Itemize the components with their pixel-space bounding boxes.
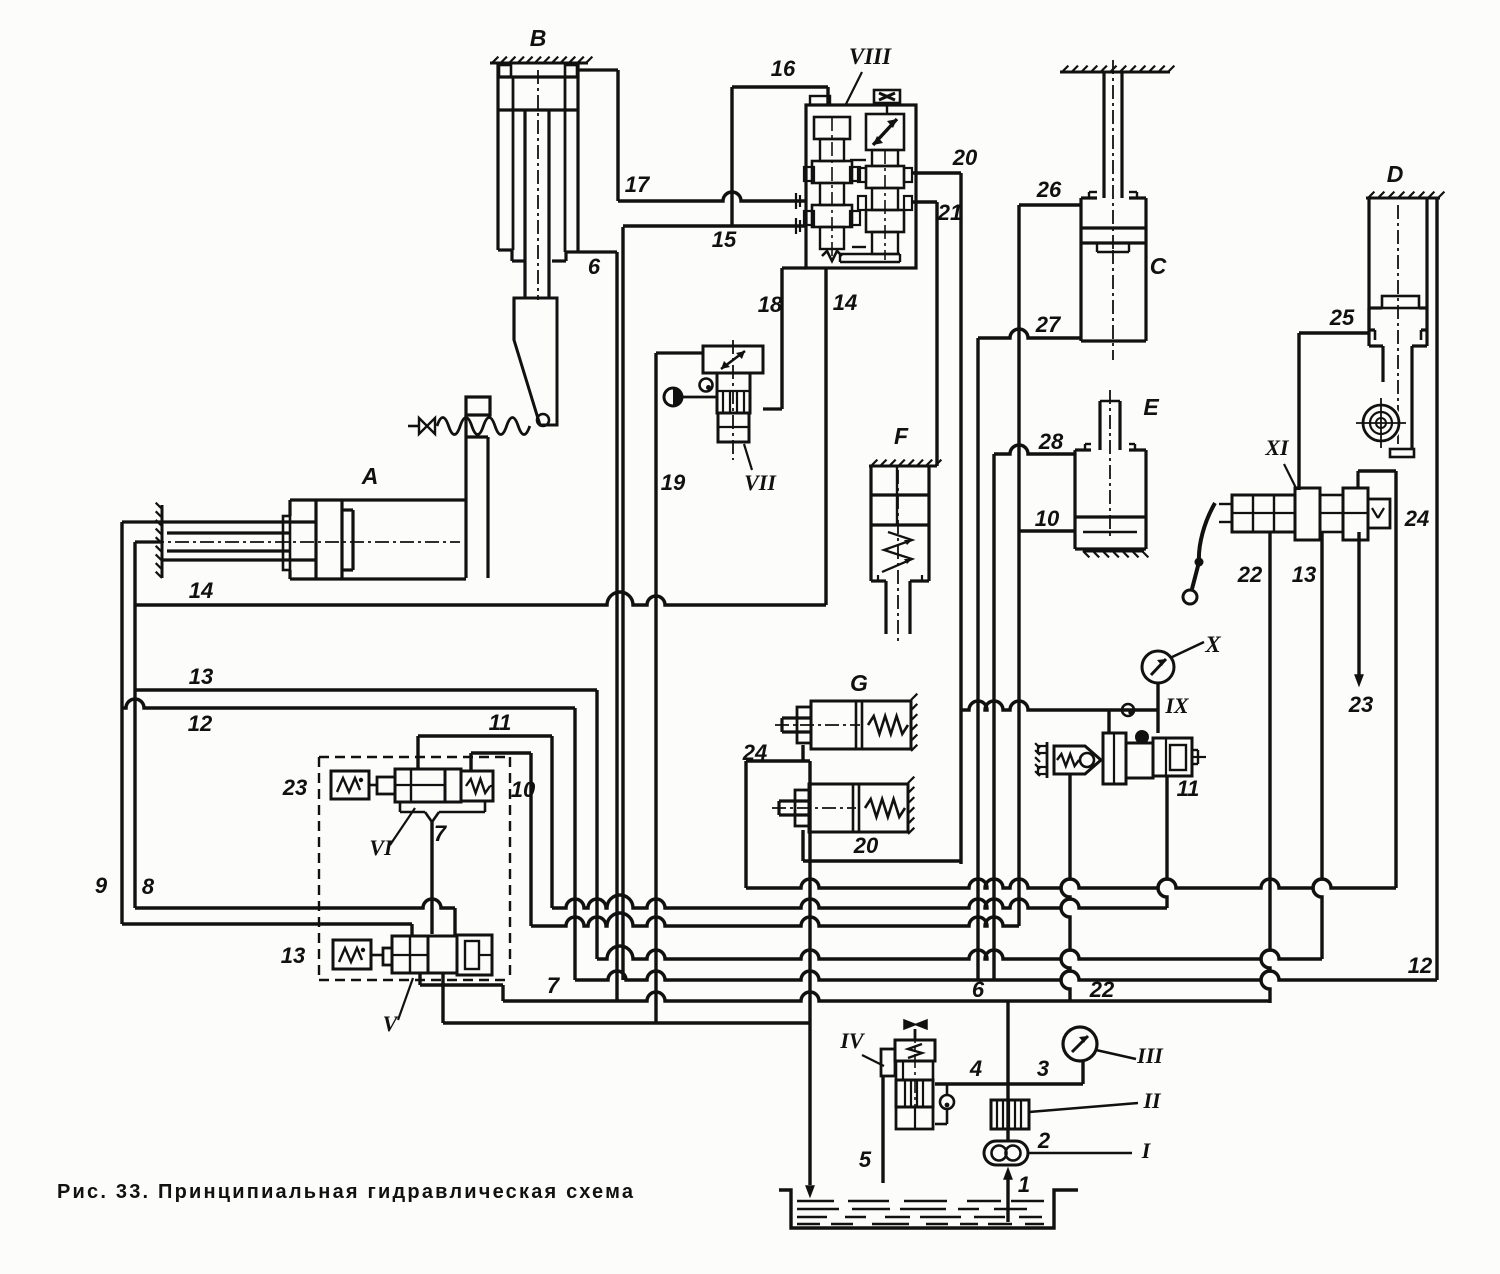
svg-text:8: 8 [142,874,155,899]
filter II [991,1100,1029,1129]
drain line 7 [443,1021,810,1024]
wire 24 left [801,745,804,761]
valve IV [904,1020,927,1029]
IX left stub [1101,759,1103,762]
bus line 13 [597,946,1322,959]
cylinder B [490,62,588,65]
svg-text:II: II [1142,1088,1162,1113]
wire 23 [1357,532,1360,676]
spring stop assembly [437,418,530,435]
wire 7 mid [430,822,433,934]
cylinder G lower [809,784,908,832]
svg-text:C: C [1150,253,1167,279]
wire 25 [1299,331,1369,334]
svg-text:14: 14 [833,290,857,315]
svg-text:6: 6 [972,977,985,1002]
valve IX [1103,733,1126,784]
cylinder C [1060,71,1170,74]
svg-text:E: E [1143,394,1159,420]
wire 8 [135,540,162,543]
wire 26 [1019,203,1081,206]
wire 10 [1019,529,1075,532]
svg-text:IX: IX [1164,693,1190,718]
svg-text:10: 10 [511,777,536,802]
svg-text:3: 3 [1037,1056,1049,1081]
gauge III [1063,1027,1097,1061]
line 13 [135,688,597,691]
valve VI [369,784,377,787]
svg-text:22: 22 [1237,562,1263,587]
line 5 [881,1076,884,1183]
svg-text:13: 13 [281,943,305,968]
suction line [1006,1178,1009,1222]
wire 6 [578,250,617,253]
wire 27 [978,329,1081,338]
bus line 24 [746,879,1396,888]
valve XI [1232,495,1295,532]
svg-text:18: 18 [758,292,783,317]
svg-text:VII: VII [744,470,777,495]
svg-text:28: 28 [1038,429,1064,454]
wire 19 [654,353,657,1023]
line 11 left [416,736,419,769]
svg-text:10: 10 [1035,506,1060,531]
electro box 23 [331,771,369,799]
svg-text:26: 26 [1036,177,1062,202]
V bottom link [420,983,503,986]
svg-text:24: 24 [742,740,767,765]
svg-text:2: 2 [1037,1128,1051,1153]
bracket column [464,415,467,578]
svg-text:5: 5 [859,1147,872,1172]
svg-text:24: 24 [1404,506,1429,531]
svg-text:XI: XI [1264,435,1290,460]
bus line 12 [575,971,1437,980]
svg-text:11: 11 [489,710,512,735]
valve block VIII [806,105,916,268]
svg-text:4: 4 [969,1056,982,1081]
svg-text:23: 23 [1348,692,1373,717]
dashed enclosure [319,756,510,758]
line 10 left [469,753,472,771]
svg-text:A: A [361,463,379,489]
cylinder F [869,465,937,468]
V bottom right [441,973,444,1023]
wire 17 [616,70,619,201]
tank [779,1190,1078,1228]
pump riser [1006,1001,1009,1141]
svg-text:11: 11 [1177,776,1200,801]
pilot drain [1061,774,1070,1001]
svg-text:25: 25 [1329,305,1355,330]
wire 21 [912,200,937,203]
svg-text:6: 6 [588,254,601,279]
svg-text:19: 19 [661,470,686,495]
svg-text:Рис. 33. Принципиальная гидрав: Рис. 33. Принципиальная гидравлическая с… [57,1181,635,1203]
svg-text:B: B [530,25,547,51]
svg-text:IV: IV [839,1028,866,1053]
valve V [371,954,383,957]
line 9 h [122,922,412,925]
svg-text:1: 1 [1018,1172,1030,1197]
svg-text:G: G [850,670,868,696]
cylinder E [1098,401,1101,450]
svg-text:20: 20 [853,833,879,858]
svg-text:9: 9 [95,873,108,898]
wire 20 [912,171,961,174]
svg-text:X: X [1204,632,1221,657]
lever of XI [1192,503,1215,589]
line 8 h [135,899,455,908]
line 12 [122,699,575,708]
cylinder G upper [811,701,911,749]
drain riser [808,761,811,1185]
pilot unit of IX [1054,746,1101,774]
pilot line [961,701,1158,710]
line 14 [135,592,826,605]
wire 24 right [1356,471,1359,488]
pressure line 6-22 [503,992,1270,1001]
svg-text:22: 22 [1089,977,1115,1002]
bus line 11 [552,895,1167,908]
svg-text:27: 27 [1035,312,1062,337]
valve VII [703,346,763,373]
svg-text:13: 13 [1292,562,1316,587]
svg-text:14: 14 [189,578,213,603]
svg-text:VIII: VIII [849,44,892,69]
bus line 10 [531,913,1019,926]
svg-text:15: 15 [712,227,737,252]
svg-text:D: D [1387,161,1404,187]
tool slide on B [514,298,557,425]
wire 16 [732,85,828,88]
svg-text:17: 17 [625,172,651,197]
svg-text:12: 12 [1408,953,1433,978]
drain arrow [806,1186,814,1197]
svg-text:7: 7 [434,821,448,846]
svg-text:V: V [383,1011,400,1036]
svg-text:21: 21 [937,200,962,225]
cylinder D [1366,197,1440,200]
wire 20 left [801,830,804,861]
piston rod of B [523,110,526,298]
target symbol on D [1360,402,1402,444]
electro box 13 [333,940,371,969]
wire D top [1435,199,1438,980]
gauge X [1142,651,1174,683]
svg-text:7: 7 [547,973,561,998]
wire 15 [623,224,806,227]
wire 18 [780,268,783,409]
wire 28 [994,445,1075,454]
wire 14 riser [824,268,827,605]
wire 13 right [1313,532,1322,959]
svg-text:13: 13 [189,664,213,689]
pilot of IV [940,1095,954,1109]
cylinder A [161,505,164,578]
svg-text:F: F [894,423,909,449]
V bottom [418,973,421,985]
svg-text:23: 23 [282,775,307,800]
wire 11 right [1158,776,1167,908]
svg-text:III: III [1136,1043,1164,1068]
svg-text:16: 16 [771,56,796,81]
svg-text:20: 20 [952,145,978,170]
svg-text:VI: VI [369,835,394,860]
line 4 [935,1082,1083,1085]
pump I [984,1141,1028,1165]
svg-text:12: 12 [188,711,213,736]
svg-text:I: I [1141,1138,1152,1163]
gauge X stem [1156,683,1159,733]
wire 9 [122,520,162,523]
wire 22 [1261,532,1270,1003]
IX top left stub [1107,710,1110,733]
